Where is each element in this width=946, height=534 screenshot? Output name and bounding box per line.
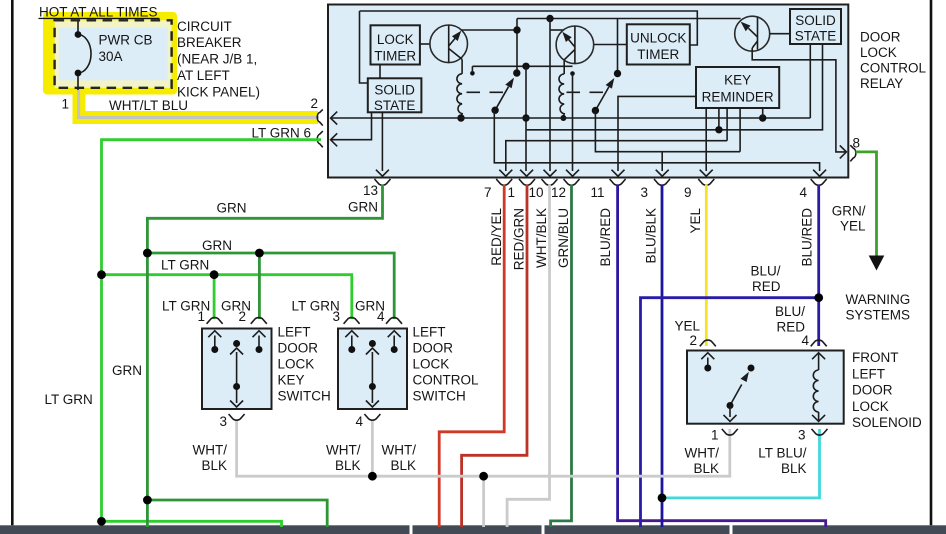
- junction dot GRN bottom left: [143, 496, 152, 505]
- circuit breaker CB1 yellow highlight block: [43, 12, 177, 95]
- solenoid switch pivot dot: [727, 402, 734, 409]
- wire GRN relay pin 13 down and left riser: [147, 185, 382, 528]
- wire lock timer to solid state: [379, 65, 381, 79]
- svg-text:LT BLU/: LT BLU/: [758, 446, 807, 461]
- transistor Q3 base bar: [757, 18, 759, 50]
- wire LT GRN bus to switch pins: [102, 275, 352, 319]
- svg-text:7: 7: [484, 185, 492, 200]
- junction dot pin 1 riser at bus: [522, 114, 529, 121]
- svg-text:SOLENOID: SOLENOID: [852, 415, 922, 430]
- svg-text:10: 10: [528, 185, 543, 200]
- wire pin 10 vertical: [549, 19, 551, 172]
- svg-text:GRN: GRN: [112, 363, 142, 378]
- key switch pin 2 contact arrowhead: [253, 331, 266, 338]
- svg-text:TIMER: TIMER: [374, 49, 416, 64]
- solenoid pin 4 collar: [811, 340, 827, 346]
- svg-text:CONTROL: CONTROL: [860, 61, 926, 76]
- switch S2 contact vertical: [617, 19, 619, 74]
- wire Q2 collector stub: [550, 29, 563, 31]
- dashed mechanical link unlock relay: [567, 91, 604, 93]
- pin 9 internal arrow: [700, 170, 713, 177]
- stub terminal lock to node row: [471, 66, 473, 72]
- pin 4 internal arrow: [813, 170, 826, 177]
- pin 13 internal arrow: [376, 170, 389, 177]
- svg-text:GRN: GRN: [202, 238, 232, 253]
- bottom connector bar segment 2: [413, 525, 542, 534]
- circuit breaker element arc: [78, 35, 91, 74]
- front left door lock solenoid box L3: [687, 351, 844, 424]
- svg-text:WHT/LT BLU: WHT/LT BLU: [109, 98, 188, 113]
- junction dot GRN at key switch branch: [255, 249, 264, 258]
- svg-text:WHT/: WHT/: [326, 443, 361, 458]
- transistor Q3 emitter arm: [752, 41, 757, 48]
- svg-text:YEL: YEL: [840, 219, 866, 234]
- svg-text:3: 3: [640, 185, 648, 200]
- junction dot coil L1 to bus: [457, 114, 464, 121]
- wire GRN bus to switch pins: [147, 253, 394, 319]
- wire Q3 base to solid state right: [770, 33, 791, 35]
- svg-text:3: 3: [219, 414, 227, 429]
- svg-text:SYSTEMS: SYSTEMS: [846, 307, 911, 322]
- wire LT GRN bottom run to connector bar: [102, 521, 282, 527]
- switch S2 arm arrowhead: [606, 78, 615, 89]
- svg-text:4: 4: [799, 185, 807, 200]
- svg-text:KEY: KEY: [278, 373, 305, 388]
- horizontal node wire between terminals: [472, 65, 572, 67]
- terminal node lock side: [470, 71, 475, 76]
- solid state box left: [368, 78, 422, 112]
- svg-text:LT GRN: LT GRN: [45, 392, 93, 407]
- pin 10 internal arrow: [544, 170, 557, 177]
- wire h2 pin 1 to solid state right pin B: [527, 44, 823, 130]
- svg-text:UNLOCK: UNLOCK: [630, 31, 686, 46]
- circuit breaker CB1 dashed border: [55, 20, 172, 88]
- solenoid switch lower shaft: [729, 406, 731, 418]
- svg-text:REMINDER: REMINDER: [702, 90, 774, 105]
- wire pin 1 riser vertical: [525, 66, 527, 171]
- switch S2 pivot dot: [592, 107, 599, 114]
- door lock control relay box U1: [328, 5, 848, 178]
- key switch pin 1 contact dot: [211, 346, 218, 353]
- svg-text:LT GRN: LT GRN: [162, 299, 210, 314]
- svg-text:TIMER: TIMER: [637, 47, 679, 62]
- svg-text:(NEAR J/B 1,: (NEAR J/B 1,: [177, 52, 257, 67]
- wire Q1 emitter down to lock coil L1: [461, 59, 463, 74]
- key switch common contact dot: [233, 340, 240, 347]
- svg-text:RELAY: RELAY: [860, 76, 903, 91]
- svg-text:30A: 30A: [99, 49, 123, 64]
- pin 1 collar: [519, 179, 535, 185]
- svg-text:YEL: YEL: [674, 319, 700, 334]
- pin 6 entry arrowhead: [331, 133, 338, 146]
- pin 11 internal arrow: [612, 170, 625, 177]
- svg-text:BLU/RED: BLU/RED: [598, 208, 613, 267]
- solenoid coil upper arrowhead: [812, 353, 825, 360]
- switch S1 pivot dot: [491, 107, 498, 114]
- svg-text:WARNING: WARNING: [846, 292, 911, 307]
- svg-text:LOCK: LOCK: [278, 357, 315, 372]
- svg-text:SWITCH: SWITCH: [413, 389, 466, 404]
- pin 11 collar: [610, 179, 626, 185]
- control switch actuator mid dot: [369, 383, 376, 390]
- pin 3 collar: [654, 179, 670, 185]
- svg-text:3: 3: [798, 428, 806, 443]
- junction dot WHT/BLK at drop: [479, 472, 488, 481]
- transistor Q3 collector arrowhead: [741, 22, 751, 32]
- solenoid pin 1 collar: [722, 429, 738, 435]
- wire pin 12 vertical from unlock terminal: [572, 74, 574, 172]
- svg-text:SOLID: SOLID: [795, 13, 836, 28]
- wire h4 switch S1 pivot to pin 4: [494, 110, 819, 171]
- key switch actuator down arrowhead: [230, 401, 243, 408]
- main bus wire with pin 2 arrow: [331, 117, 810, 119]
- transistor Q1 collector arm: [449, 37, 456, 46]
- svg-text:GRN: GRN: [355, 299, 385, 314]
- pin 2 collar: [317, 109, 323, 125]
- junction dot wire B to pin 10: [546, 15, 553, 22]
- svg-text:2: 2: [310, 96, 318, 111]
- key reminder pin a stub: [718, 108, 720, 130]
- solenoid coil top lead: [818, 353, 820, 370]
- svg-text:LT GRN: LT GRN: [292, 299, 340, 314]
- transistor Q3 circle: [735, 16, 770, 51]
- svg-text:RED: RED: [752, 279, 781, 294]
- lock timer box: [371, 25, 420, 64]
- transistor Q2 base bar: [574, 27, 576, 64]
- unlock timer box: [627, 24, 690, 64]
- pin 1 internal arrow: [520, 170, 533, 177]
- svg-text:1: 1: [507, 185, 515, 200]
- wire branch h5 down to pin 3: [661, 152, 663, 171]
- left door lock control switch box S4: [338, 329, 407, 410]
- svg-text:SOLID: SOLID: [374, 83, 415, 98]
- svg-text:9: 9: [684, 185, 692, 200]
- svg-text:RED/GRN: RED/GRN: [512, 208, 527, 270]
- svg-text:RED: RED: [776, 319, 805, 334]
- svg-text:DOOR: DOOR: [278, 341, 319, 356]
- wire from dashed box top to breaker contact: [77, 21, 79, 32]
- switch S1 arm arrowhead: [505, 78, 514, 89]
- wire h3 pin 7 to key reminder pin b: [506, 141, 727, 171]
- solenoid switch down arrowhead: [724, 415, 737, 422]
- control switch actuator shaft: [371, 352, 373, 403]
- wire Q2 base to unlock timer: [594, 44, 627, 46]
- junction dot coil L2 to bus: [560, 115, 566, 121]
- left door lock key switch box S3: [202, 329, 272, 410]
- junction dot GRN bus left: [143, 249, 152, 258]
- svg-text:4: 4: [355, 414, 363, 429]
- svg-text:GRN/: GRN/: [832, 203, 866, 218]
- pin 12 internal arrow: [566, 170, 579, 177]
- switch S1 contact vertical from wire B: [516, 19, 518, 73]
- transistor Q2 collector arrowhead: [562, 32, 571, 42]
- circuit breaker CB1 inner blue fill: [59, 28, 168, 80]
- wire pin 6 from solid state left: [331, 112, 372, 139]
- svg-text:PWR CB: PWR CB: [99, 33, 153, 48]
- key switch pin 1 contact: [214, 336, 216, 350]
- svg-text:WHT/: WHT/: [685, 446, 720, 461]
- svg-text:LT GRN 6: LT GRN 6: [251, 126, 311, 141]
- svg-text:YEL: YEL: [688, 208, 703, 234]
- bottom connector bar segment 1: [0, 525, 410, 534]
- svg-text:2: 2: [689, 333, 697, 348]
- junction dot LT GRN at key switch branch: [210, 270, 219, 279]
- solid state box right: [790, 9, 841, 44]
- junction dot key reminder pin d at bus: [759, 114, 766, 121]
- pin 3 internal arrow: [656, 170, 669, 177]
- wire Q1 collector to node: [461, 29, 517, 31]
- wire pin 11 riser and link to key reminder: [618, 96, 696, 171]
- svg-text:GRN: GRN: [348, 200, 378, 215]
- wire A branch down to solid state left: [360, 11, 369, 83]
- svg-text:4: 4: [801, 333, 809, 348]
- pin 9 collar: [698, 179, 714, 185]
- svg-text:DOOR: DOOR: [852, 383, 893, 398]
- wire LT BLU/BLK solenoid pin 3 to BLU/BLK junction: [662, 429, 820, 498]
- svg-text:CONTROL: CONTROL: [413, 373, 479, 388]
- pin 2 entry arrowhead: [331, 112, 338, 125]
- transistor Q1 collector arrowhead: [452, 31, 461, 41]
- svg-text:LEFT: LEFT: [413, 325, 446, 340]
- switch S2 arm: [595, 87, 608, 111]
- wire BLU/BLK relay pin 3 to bar: [661, 185, 664, 528]
- solenoid switch upper contact dot: [748, 365, 755, 372]
- svg-text:LOCK: LOCK: [377, 32, 414, 47]
- pin 8 collar: [850, 145, 856, 161]
- dashed mechanical link lock relay: [467, 91, 506, 93]
- page right border: [930, 0, 933, 525]
- key reminder pin c stub: [739, 108, 741, 152]
- solenoid switch arm: [730, 385, 742, 406]
- control switch common contact dot: [369, 340, 376, 347]
- pin 7 collar: [496, 179, 512, 185]
- svg-text:WHT/BLK: WHT/BLK: [534, 208, 549, 268]
- junction dot LT GRN bottom left: [97, 517, 106, 526]
- junction dot Q1 collector node: [513, 26, 520, 33]
- wire BLU/RED relay pin 4 to solenoid pin 4: [817, 185, 820, 347]
- underline of HOT AT ALL TIMES: [39, 18, 160, 19]
- pin 13 collar: [375, 179, 391, 185]
- solenoid coil winding: [813, 370, 818, 412]
- svg-text:1: 1: [711, 428, 719, 443]
- wire WHT/BLK drop to connector bar: [482, 476, 485, 527]
- svg-text:LT GRN: LT GRN: [161, 258, 209, 273]
- transistor Q1 emitter arm: [449, 49, 462, 60]
- pin 7 internal arrow: [499, 170, 512, 177]
- wire h5 switch S2 pivot to key reminder pin c: [595, 111, 740, 152]
- svg-text:BLK: BLK: [390, 458, 416, 473]
- junction dot node to pin 1 riser: [522, 63, 529, 70]
- junction dot LT BLU/BLK to BLU/BLK: [658, 494, 667, 503]
- switch S1 arm: [495, 87, 508, 111]
- wire pin 13 from solid state left: [381, 112, 383, 171]
- svg-text:BLU/: BLU/: [750, 263, 780, 278]
- wire WHT/LT BLU yellow highlight band: [79, 93, 318, 118]
- wire from breaker bottom to pin 1: [77, 76, 79, 91]
- control switch actuator down arrowhead: [366, 401, 379, 408]
- transistor Q2 circle: [556, 26, 594, 64]
- wire BLU/RED relay pin 11 to bar run: [616, 185, 619, 521]
- svg-text:DOOR: DOOR: [860, 30, 901, 45]
- svg-text:GRN: GRN: [217, 201, 247, 216]
- control switch pin 4 contact arrowhead: [388, 331, 401, 338]
- wire B node row: [517, 18, 741, 20]
- wire Q3 emitter to pin 8: [752, 48, 846, 152]
- svg-text:BLU/RED: BLU/RED: [799, 208, 814, 267]
- key switch pin 2 collar: [251, 318, 267, 324]
- key switch pin 1 collar: [207, 318, 223, 324]
- control switch pin 4 contact: [393, 336, 395, 350]
- key reminder box: [696, 67, 779, 108]
- wire YEL relay pin 9 to solenoid pin 2: [705, 185, 708, 347]
- solenoid coil bottom lead: [818, 412, 820, 421]
- arrow GRN/YEL to warning systems: [869, 256, 885, 271]
- control switch pin 3 contact: [351, 336, 353, 350]
- wire lock timer to transistor Q1 base: [420, 43, 430, 45]
- control switch pin 3 collar: [344, 318, 360, 324]
- svg-text:8: 8: [853, 136, 861, 151]
- bottom connector bar segment 4: [733, 525, 946, 534]
- pin 10 collar: [542, 179, 558, 185]
- key reminder pin b stub: [726, 108, 728, 141]
- wire LT GRN relay pin 6 to left riser: [102, 140, 322, 522]
- wire WHT/BLK bus switches to solenoid pin 1: [237, 420, 730, 476]
- wire pin 9 from key reminder bottom: [705, 108, 707, 171]
- wire WHT/LT BLU grey wire CB pin 1 to relay pin 2: [79, 90, 319, 118]
- breaker contact dot top: [75, 31, 82, 38]
- wire LT GRN branch to key switch pin 1: [213, 275, 216, 319]
- wire WHT/BLK control switch pin 4 drop: [371, 420, 374, 476]
- pin 8 exit arrowhead: [840, 145, 847, 158]
- svg-text:STATE: STATE: [374, 98, 416, 113]
- solenoid coil down arrowhead: [812, 415, 825, 422]
- svg-text:LEFT: LEFT: [278, 325, 311, 340]
- svg-text:DOOR: DOOR: [413, 341, 454, 356]
- svg-text:FRONT: FRONT: [852, 350, 899, 365]
- solenoid switch arm arrowhead: [741, 372, 749, 382]
- svg-text:12: 12: [551, 185, 566, 200]
- control switch pin 4 collar: [386, 318, 402, 324]
- svg-text:BLK: BLK: [335, 458, 361, 473]
- solenoid pin 3 collar: [812, 429, 828, 435]
- svg-text:SWITCH: SWITCH: [278, 389, 331, 404]
- solenoid pin 2 collar: [700, 340, 716, 346]
- wire BLU/RED horizontal branch to warning loop: [641, 298, 819, 527]
- transistor Q2 collector arm: [568, 38, 575, 47]
- svg-text:LEFT: LEFT: [852, 366, 885, 381]
- svg-text:RED/YEL: RED/YEL: [489, 208, 504, 266]
- key switch actuator up arrowhead: [230, 348, 243, 355]
- switch S2 upper contact dot: [614, 70, 621, 77]
- svg-text:LOCK: LOCK: [852, 399, 889, 414]
- wire GRN bottom run to connector bar: [147, 500, 327, 527]
- control switch pin 3 contact dot: [348, 346, 355, 353]
- svg-text:STATE: STATE: [795, 29, 837, 44]
- wire WHT/BLK relay pin 10 to bar: [507, 185, 549, 528]
- transistor Q1 circle: [430, 25, 468, 63]
- pin 6 collar: [317, 131, 323, 147]
- control switch pin 4 bottom collar: [364, 414, 380, 420]
- svg-text:HOT AT ALL TIMES: HOT AT ALL TIMES: [39, 5, 158, 20]
- circuit breaker CB1 dashed box inner pale fill: [55, 20, 172, 88]
- control switch pin 4 contact dot: [391, 346, 398, 353]
- svg-text:BLK: BLK: [693, 461, 719, 476]
- svg-text:BREAKER: BREAKER: [177, 35, 242, 50]
- wire GRN/BLU relay pin 12 to bar: [551, 185, 572, 528]
- junction dot WHT/BLK at control switch: [368, 472, 377, 481]
- lock relay coil L1: [457, 74, 462, 118]
- junction dot key reminder pin a: [715, 126, 722, 133]
- bottom connector bar segment 3: [545, 525, 730, 534]
- wire solid state right pin A to bus: [809, 44, 811, 118]
- wire GRN/YEL from pin 8: [856, 152, 877, 257]
- wire RED/YEL relay pin 7 to bar: [439, 185, 504, 528]
- wire RED/GRN relay pin 1 to bar: [462, 185, 527, 528]
- svg-text:LOCK: LOCK: [860, 45, 897, 60]
- junction dot LT GRN bus left: [97, 270, 106, 279]
- breaker contact dot bottom: [75, 70, 82, 77]
- wire GRN branch to key switch pin 2: [258, 253, 261, 319]
- key switch pin 3 bottom collar: [229, 414, 245, 420]
- transistor Q3 collector arm: [749, 28, 758, 37]
- junction dot BLU/RED at pin 4 wire: [814, 293, 823, 302]
- svg-text:KEY: KEY: [724, 73, 751, 88]
- svg-text:GRN: GRN: [221, 299, 251, 314]
- svg-text:AT LEFT: AT LEFT: [177, 68, 230, 83]
- svg-text:WHT/: WHT/: [382, 443, 417, 458]
- control switch pin 3 contact arrowhead: [345, 331, 358, 338]
- wire Q2 emitter down to unlock coil L2: [563, 60, 565, 74]
- svg-text:KICK PANEL): KICK PANEL): [177, 84, 260, 99]
- svg-text:BLK: BLK: [201, 458, 227, 473]
- svg-text:11: 11: [590, 185, 604, 200]
- key switch pin 1 contact arrowhead: [208, 331, 221, 338]
- svg-text:CIRCUIT: CIRCUIT: [177, 19, 232, 34]
- svg-text:BLK: BLK: [781, 461, 807, 476]
- control switch actuator up arrowhead: [366, 348, 379, 355]
- unlock relay coil L2: [559, 74, 564, 118]
- page left border: [11, 0, 14, 525]
- svg-text:WHT/: WHT/: [193, 443, 228, 458]
- key switch pin 2 contact: [258, 336, 260, 350]
- solenoid pin 2 contact dot: [704, 365, 711, 372]
- transistor Q2 emitter arm: [564, 50, 575, 60]
- solenoid pin 2 contact: [707, 358, 709, 369]
- svg-text:BLU/BLK: BLU/BLK: [644, 208, 659, 264]
- solenoid pin 2 contact arrowhead: [701, 353, 714, 360]
- transistor Q1 base bar: [448, 26, 450, 63]
- key switch actuator mid dot: [233, 383, 240, 390]
- terminal node unlock side: [570, 71, 575, 76]
- key switch pin 2 contact dot: [256, 346, 263, 353]
- key reminder pin d stub: [762, 108, 764, 118]
- key switch actuator shaft: [236, 352, 238, 403]
- wire A top feed to unlock timer: [360, 11, 698, 45]
- svg-text:13: 13: [363, 183, 378, 198]
- svg-text:1: 1: [61, 97, 69, 112]
- svg-text:LOCK: LOCK: [413, 357, 450, 372]
- svg-text:GRN/BLU: GRN/BLU: [556, 208, 571, 268]
- pin 12 collar: [564, 179, 580, 185]
- svg-text:BLU/: BLU/: [775, 304, 805, 319]
- switch S1 upper contact dot: [513, 69, 520, 76]
- pin 4 collar: [811, 179, 827, 185]
